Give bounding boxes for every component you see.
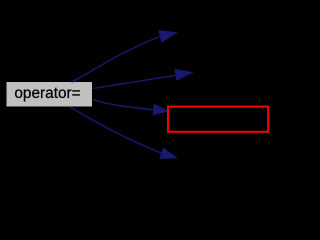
svg-text:operator=: operator= [14,85,80,102]
edge 3 (to red node) [93,99,168,115]
node red box (highlighted node, truncated graph) [168,107,268,132]
edge 2 (to second hidden node) [93,70,192,89]
edge 1 (to top hidden node) [72,31,177,83]
node operator= (current node, grey) [6,82,93,108]
edge 4 (to bottom hidden node) [70,107,176,159]
